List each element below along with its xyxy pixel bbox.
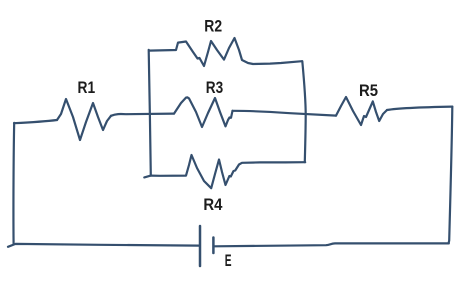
svg-text:R1: R1 [78,78,96,97]
svg-text:R4: R4 [203,195,223,214]
node: left junction vertical [149,50,151,176]
svg-text:R3: R3 [206,78,223,97]
wire R3 to R5 [233,111,337,116]
wire right vertical [449,107,453,244]
branch R4: corner tail, wire, resistor zigzag, wire to right node [144,155,305,188]
resistor R5 [336,97,387,125]
wire bottom-left [8,244,199,247]
node: right junction vertical [302,61,305,162]
wire R1 to left junction node [111,114,174,116]
svg-text:R2: R2 [204,17,222,36]
wire R5 to top-right corner [387,107,452,110]
wire left vertical [12,123,15,245]
battery plate long [199,226,202,266]
resistor R3 [174,97,233,127]
wire bottom-right [215,243,449,246]
resistor R1 [57,99,111,140]
wire top-left horizontal [14,120,57,123]
svg-text:E: E [225,252,232,270]
branch R2: wire, resistor zigzag, wire to right node [149,38,302,66]
battery plate short (positive terminal area) [212,238,215,254]
svg-text:R5: R5 [359,81,378,100]
